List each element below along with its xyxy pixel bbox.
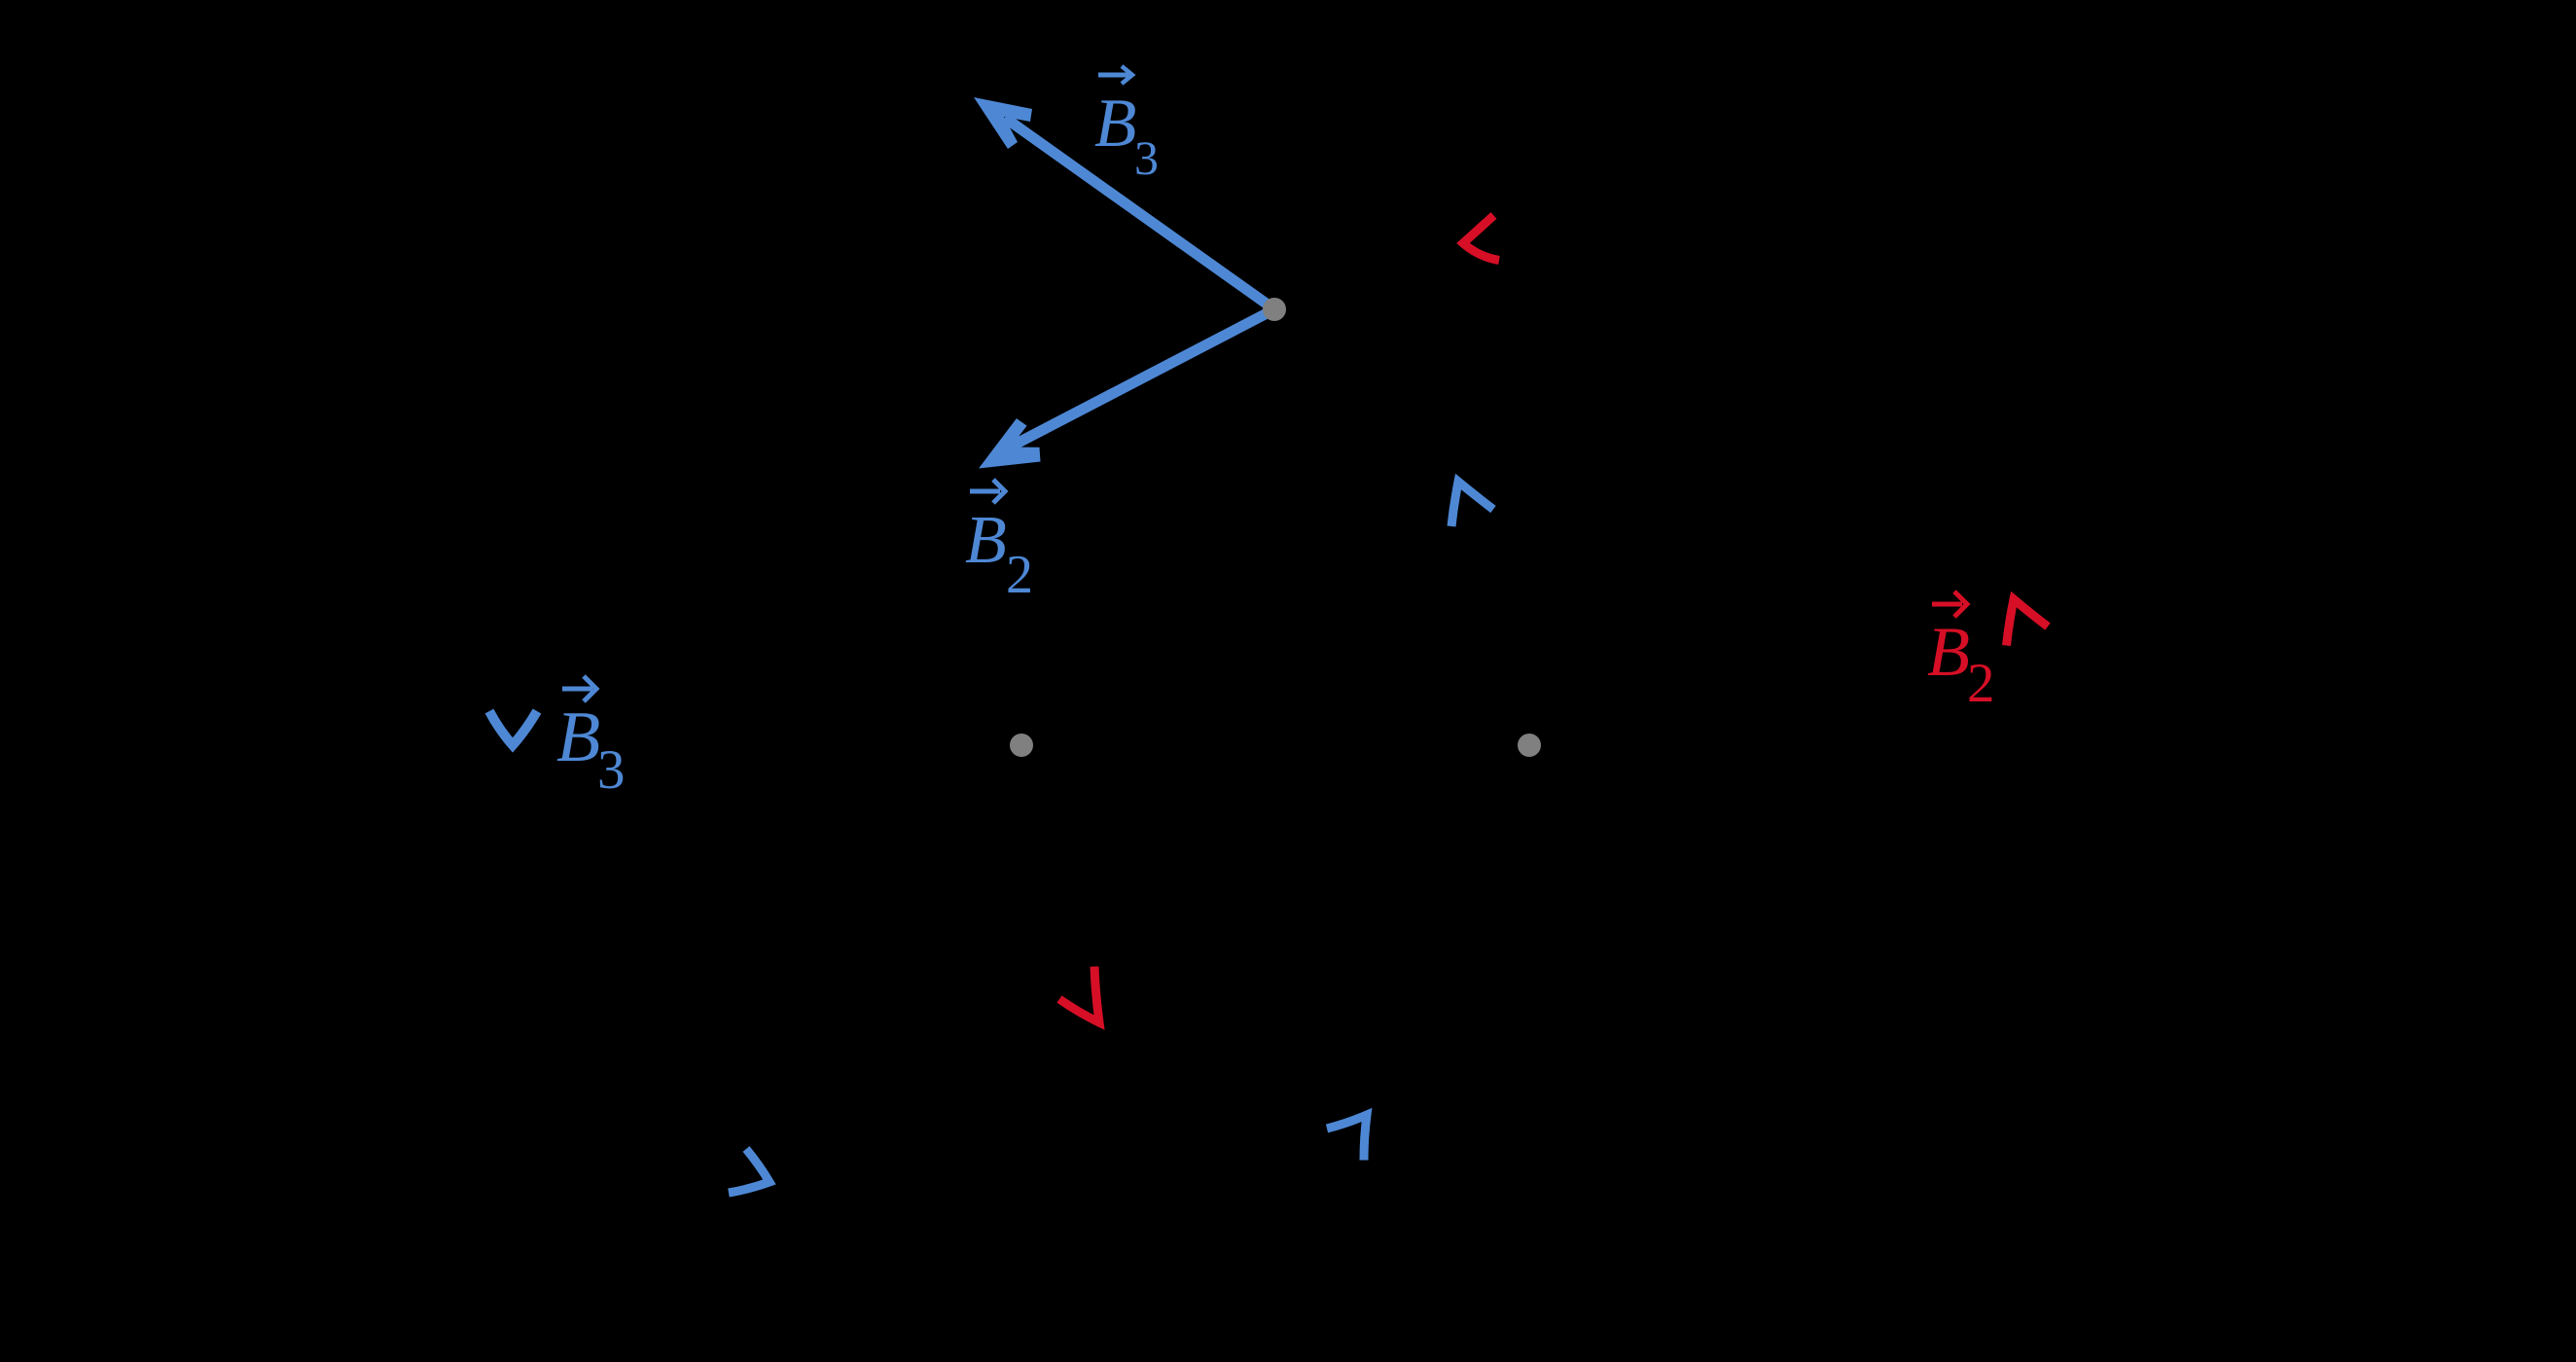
svg-text:3: 3 <box>597 739 626 801</box>
wire dot 3 (lower right) <box>1518 734 1541 757</box>
vector B2 arrow head <box>979 418 1041 468</box>
label B2 right (red) <box>1927 591 1995 714</box>
field arc arrowhead red upper <box>1463 216 1499 261</box>
svg-text:2: 2 <box>1967 653 1995 714</box>
vector B3 arrow head <box>974 97 1032 149</box>
field arc arrowhead blue bottom middle <box>1327 1115 1367 1161</box>
wire dot 2 (lower left) <box>1010 734 1033 757</box>
field arc arrowhead blue upper <box>1451 482 1493 526</box>
vector B2 arrow shaft (from wire 1 down-left) <box>1011 309 1274 447</box>
label B2 left (blue) <box>965 480 1033 605</box>
field arc arrowhead blue bottom left <box>729 1149 769 1193</box>
svg-text:B: B <box>556 698 600 777</box>
field arc arrowhead red bottom <box>1059 967 1099 1023</box>
field arc arrowhead blue check left <box>489 711 537 745</box>
vector B3 arrow shaft (from wire 1 up-left) <box>1005 118 1274 309</box>
svg-text:B: B <box>1927 613 1970 691</box>
svg-text:B: B <box>1094 86 1136 161</box>
svg-text:2: 2 <box>1006 545 1033 605</box>
field arc arrowhead red right <box>2007 599 2049 646</box>
label B3 top (blue) <box>1094 66 1159 185</box>
svg-text:3: 3 <box>1134 130 1159 185</box>
label B3 lower-left (blue) <box>556 676 626 801</box>
svg-text:B: B <box>965 503 1007 578</box>
wire dot 1 (top) <box>1263 298 1286 321</box>
